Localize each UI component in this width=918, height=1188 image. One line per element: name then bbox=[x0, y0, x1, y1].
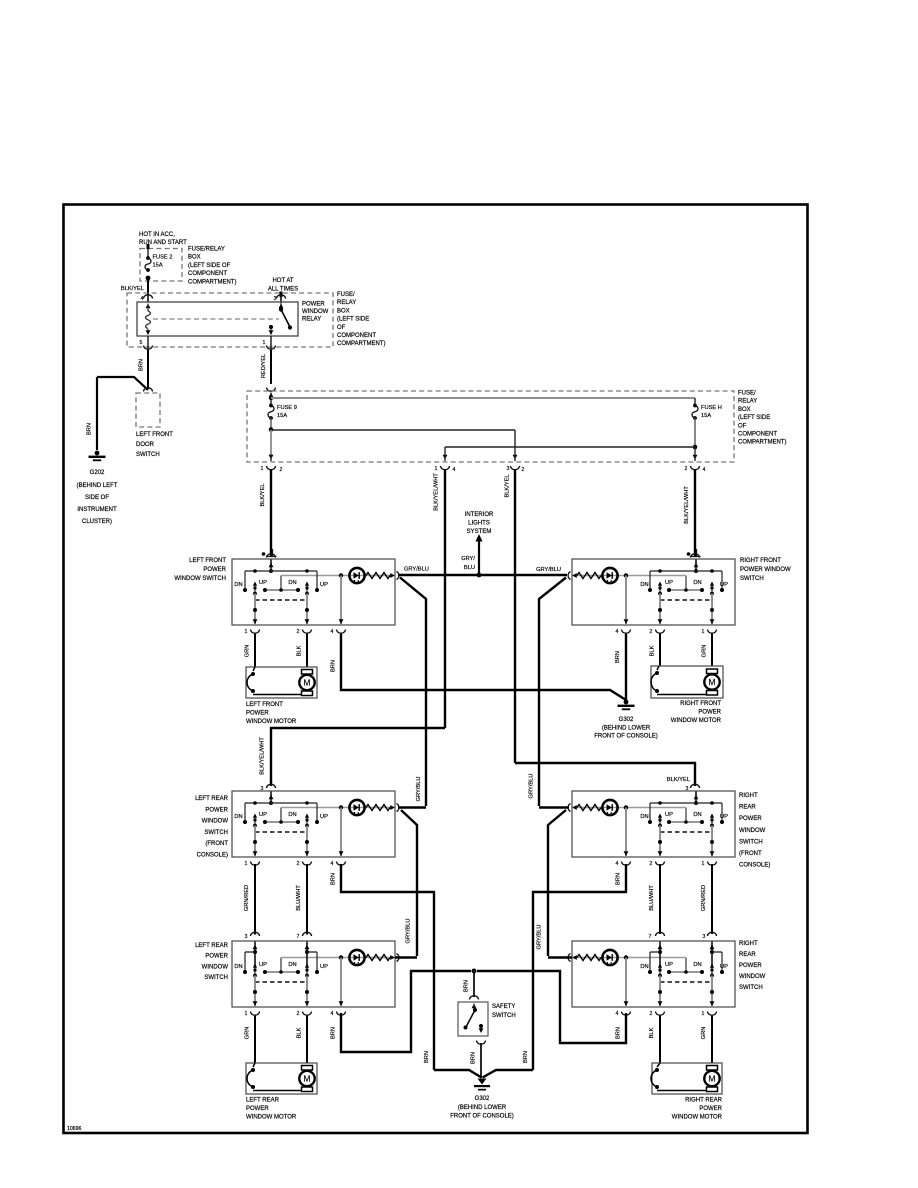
label G302 (BEHIND LOWER FRONT OF CONSOLE) front bbox=[594, 717, 658, 740]
fusebox pin 3/2 bbox=[507, 466, 525, 473]
svg-text:15A: 15A bbox=[153, 263, 163, 269]
svg-text:RIGHT: RIGHT bbox=[739, 793, 758, 799]
svg-text:GRN: GRN bbox=[702, 645, 708, 658]
svg-text:1: 1 bbox=[702, 1011, 705, 1017]
right rear power window switch (front console) illumination LED and resistor bbox=[568, 800, 686, 822]
left front power window switch feed bus from pin bbox=[245, 560, 317, 591]
right front power window switch DN/UP contact row bbox=[648, 588, 724, 592]
fuse/relay box 3 (dashed) bbox=[247, 391, 734, 462]
svg-text:5: 5 bbox=[140, 340, 143, 346]
wire BLK right rear bbox=[649, 1016, 660, 1063]
left rear power window switch (front console) illumination LED and resistor bbox=[281, 800, 399, 822]
wire BRN relay pin5 down bbox=[139, 350, 149, 389]
left front power window switch wiper w2 bbox=[305, 582, 309, 596]
svg-text:SWITCH: SWITCH bbox=[204, 830, 228, 836]
svg-text:SWITCH: SWITCH bbox=[739, 985, 763, 991]
left front power window switch DN UP labels bbox=[234, 580, 328, 588]
fusebox pin 1/4 bbox=[435, 466, 456, 473]
svg-text:4: 4 bbox=[331, 1011, 334, 1017]
svg-text:FUSE/: FUSE/ bbox=[738, 391, 756, 397]
svg-text:1: 1 bbox=[435, 466, 438, 472]
svg-text:RELAY: RELAY bbox=[302, 317, 321, 323]
svg-text:4: 4 bbox=[141, 296, 144, 302]
svg-text:UP: UP bbox=[259, 580, 267, 586]
svg-text:GRN: GRN bbox=[245, 1027, 251, 1040]
page border frame bbox=[64, 205, 808, 1134]
svg-text:4: 4 bbox=[616, 629, 619, 635]
safety switch bottom pin bbox=[477, 1041, 486, 1045]
left front power window switch wiper w1 bbox=[253, 582, 257, 596]
svg-text:2: 2 bbox=[685, 466, 688, 472]
svg-text:1: 1 bbox=[245, 861, 248, 867]
wire GRY/BLU right lower drop bbox=[537, 810, 567, 956]
label G202 (BEHIND LEFT SIDE OF INSTRUMENT CLUSTER) bbox=[76, 470, 117, 525]
right front power window switch DN UP labels bbox=[640, 580, 728, 588]
svg-text:4: 4 bbox=[331, 629, 334, 635]
svg-text:BLU/WHT: BLU/WHT bbox=[649, 885, 655, 911]
wire BRN left console to ground run bbox=[331, 864, 435, 1070]
svg-text:POWER: POWER bbox=[203, 567, 226, 573]
right rear motor contact arc bbox=[651, 1063, 712, 1091]
svg-text:BRN: BRN bbox=[139, 359, 145, 371]
svg-text:DN: DN bbox=[234, 814, 242, 820]
wire GRY/BLU into right lower switch bbox=[548, 956, 572, 958]
wire BLK left rear bbox=[297, 1016, 308, 1063]
wire BRN branch to ground bbox=[87, 377, 149, 450]
left rear power window switch (front console) bottom pins 1 2 4 bbox=[245, 861, 346, 867]
svg-text:3: 3 bbox=[507, 466, 510, 472]
svg-text:4: 4 bbox=[703, 467, 706, 473]
svg-text:WINDOW MOTOR: WINDOW MOTOR bbox=[246, 1115, 297, 1121]
left rear power window switch illumination LED and resistor bbox=[281, 950, 399, 972]
svg-text:1: 1 bbox=[702, 629, 705, 635]
right rear power window switch (front console) bottom pins 1 2 4 bbox=[616, 861, 717, 867]
svg-text:POWER: POWER bbox=[205, 954, 228, 960]
svg-text:1: 1 bbox=[261, 466, 264, 472]
wire BLU/WHT right bbox=[649, 864, 660, 934]
svg-text:BLK/YEL: BLK/YEL bbox=[121, 286, 144, 292]
svg-text:BRN: BRN bbox=[616, 1027, 622, 1039]
svg-text:G202: G202 bbox=[90, 470, 105, 476]
safety switch contacts bbox=[464, 1004, 484, 1034]
svg-text:(LEFT SIDE: (LEFT SIDE bbox=[337, 317, 369, 323]
svg-text:SWITCH: SWITCH bbox=[740, 576, 764, 582]
wire BLK/YEL fusebox pin3 down bbox=[505, 469, 516, 763]
right rear console switch pin 3 bbox=[686, 784, 700, 792]
svg-text:BLK/YEL/WHT: BLK/YEL/WHT bbox=[434, 473, 440, 511]
left front motor contact arc bbox=[247, 667, 307, 695]
svg-text:OF: OF bbox=[738, 423, 747, 429]
svg-text:15A: 15A bbox=[277, 413, 287, 419]
svg-text:(FRONT: (FRONT bbox=[205, 841, 228, 847]
svg-text:FUSE 2: FUSE 2 bbox=[153, 255, 173, 261]
wire BRN right funnel bbox=[483, 1051, 534, 1078]
svg-text:FRONT OF CONSOLE): FRONT OF CONSOLE) bbox=[450, 1113, 514, 1119]
svg-text:(LEFT SIDE OF: (LEFT SIDE OF bbox=[188, 263, 231, 269]
svg-text:BLU/WHT: BLU/WHT bbox=[296, 885, 302, 911]
svg-text:1: 1 bbox=[263, 340, 266, 346]
svg-text:UP: UP bbox=[665, 580, 673, 586]
svg-text:LEFT FRONT: LEFT FRONT bbox=[246, 702, 283, 708]
left rear power window switch (front console) DN/UP contact row bbox=[243, 820, 319, 824]
left front power window switch mechanical link bbox=[255, 599, 307, 601]
left front power window switch output wires to pins bbox=[253, 576, 344, 626]
wire BLK/YEL fuse2 to relay pin4 bbox=[121, 278, 148, 295]
wire BLK left front bbox=[297, 634, 308, 667]
left rear power window switch (front console) DN UP labels bbox=[234, 812, 328, 820]
left rear power window switch DN/UP contact row bbox=[243, 970, 319, 974]
svg-text:BLU: BLU bbox=[464, 565, 475, 571]
wire fuseH to pin2 down bbox=[693, 447, 698, 461]
svg-text:BRN: BRN bbox=[523, 1051, 529, 1063]
wire BLU/WHT left bbox=[296, 864, 307, 935]
right front power window switch body bbox=[572, 559, 735, 625]
left front motor M1 bbox=[299, 670, 314, 696]
svg-text:2: 2 bbox=[522, 467, 525, 473]
wire fuse9 to pin3 run bbox=[271, 430, 517, 461]
fuse FH bbox=[692, 404, 722, 420]
right rear power window switch DN UP labels bbox=[640, 962, 728, 970]
svg-text:BLK: BLK bbox=[650, 645, 656, 656]
svg-text:BLK/YEL/WHT: BLK/YEL/WHT bbox=[260, 737, 266, 775]
svg-text:(BEHIND LOWER: (BEHIND LOWER bbox=[602, 725, 651, 731]
svg-text:WINDOW MOTOR: WINDOW MOTOR bbox=[672, 1115, 723, 1121]
svg-text:COMPONENT: COMPONENT bbox=[188, 271, 227, 277]
wire BRN left funnel bbox=[424, 1051, 482, 1078]
safety switch body bbox=[458, 1002, 488, 1036]
right rear motor M4 bbox=[704, 1066, 719, 1092]
svg-text:7: 7 bbox=[649, 934, 652, 940]
left rear power window switch output wires to pins bbox=[253, 958, 344, 1008]
wire fuseH to pin1 run bbox=[443, 447, 695, 461]
wire stub hot-in-acc bbox=[147, 244, 150, 249]
right rear power window switch wiper w2 bbox=[658, 964, 662, 978]
svg-text:4: 4 bbox=[616, 861, 619, 867]
right front power window motor body bbox=[651, 666, 723, 698]
svg-text:(FRONT: (FRONT bbox=[739, 851, 762, 857]
svg-text:LEFT FRONT: LEFT FRONT bbox=[189, 558, 226, 564]
svg-text:SWITCH: SWITCH bbox=[136, 452, 160, 458]
label HOT AT ALL TIMES bbox=[268, 278, 298, 293]
wire fuse9 to pin1 down bbox=[269, 430, 274, 461]
svg-text:(LEFT SIDE: (LEFT SIDE bbox=[738, 415, 770, 421]
svg-text:BRN: BRN bbox=[616, 873, 622, 885]
wire GRY/BLU into right console switch bbox=[539, 806, 569, 808]
svg-text:UP: UP bbox=[320, 582, 328, 588]
svg-text:BRN: BRN bbox=[424, 1051, 430, 1063]
label SAFETY SWITCH bbox=[492, 1004, 516, 1019]
svg-text:BLK: BLK bbox=[649, 1027, 655, 1038]
svg-text:M: M bbox=[708, 1074, 715, 1084]
svg-text:POWER WINDOW: POWER WINDOW bbox=[740, 567, 791, 573]
svg-text:GRY/BLU: GRY/BLU bbox=[406, 919, 412, 944]
svg-text:HOT AT: HOT AT bbox=[272, 278, 293, 284]
svg-text:GRY/BLU: GRY/BLU bbox=[416, 777, 422, 802]
wire BLK/YEL/WHT junction to left rear console switch bbox=[260, 728, 446, 786]
left rear power window switch (front console) feed bus from pin bbox=[245, 792, 317, 823]
left front switch inline connector bbox=[262, 549, 277, 558]
svg-text:LEFT REAR: LEFT REAR bbox=[246, 1098, 280, 1104]
svg-text:CLUSTER): CLUSTER) bbox=[82, 519, 112, 525]
left front door switch connector bbox=[144, 388, 153, 392]
wire BRN right lower switch bbox=[477, 971, 626, 1043]
right front switch inline connector bbox=[687, 549, 701, 558]
label RIGHT REAR POWER WINDOW SWITCH bbox=[739, 941, 766, 991]
svg-text:BOX: BOX bbox=[337, 308, 350, 314]
left front power window switch illumination LED and resistor bbox=[281, 568, 399, 590]
left rear power window switch wiper w1 bbox=[253, 964, 257, 978]
svg-text:INSTRUMENT: INSTRUMENT bbox=[77, 507, 117, 513]
svg-text:2: 2 bbox=[280, 467, 283, 473]
ground G302 rear bbox=[474, 1079, 490, 1091]
wire GRN left rear bbox=[245, 1016, 256, 1063]
right rear power window switch mechanical link bbox=[660, 981, 712, 983]
svg-text:COMPARTMENT): COMPARTMENT) bbox=[738, 440, 786, 446]
svg-text:4: 4 bbox=[616, 1011, 619, 1017]
left rear console switch pin 3 bbox=[261, 784, 276, 792]
svg-text:GRN: GRN bbox=[701, 1027, 707, 1040]
svg-text:15A: 15A bbox=[701, 413, 711, 419]
label HOT IN ACC RUN AND START bbox=[139, 232, 187, 246]
wire BLK right front bbox=[650, 634, 661, 666]
wire GRN right rear bbox=[701, 1016, 712, 1063]
label LEFT REAR POWER WINDOW SWITCH (FRONT CONSOLE) bbox=[195, 796, 229, 859]
svg-text:CONSOLE): CONSOLE) bbox=[197, 853, 228, 859]
svg-text:1: 1 bbox=[702, 861, 705, 867]
svg-text:POWER: POWER bbox=[205, 807, 228, 813]
svg-text:FUSE 9: FUSE 9 bbox=[277, 405, 297, 411]
svg-text:GRN/RED: GRN/RED bbox=[244, 885, 250, 911]
left rear power window motor body bbox=[246, 1063, 317, 1094]
label FUSE/RELAY BOX right of fusebox bbox=[738, 391, 786, 446]
wire GRY/BLU into left lower switch bbox=[395, 956, 417, 958]
right rear switch pins 7 and 3 bbox=[649, 932, 717, 940]
right rear power window switch bottom pins 1 2 4 bbox=[616, 1011, 717, 1017]
svg-text:7: 7 bbox=[297, 934, 300, 940]
wire BLK/YEL to left front switch bbox=[260, 469, 271, 556]
right front power window switch bottom pins 1 2 4 bbox=[616, 629, 717, 635]
left rear motor contact arc bbox=[247, 1063, 307, 1091]
svg-text:DN: DN bbox=[640, 814, 648, 820]
right rear power window switch wiper w1 bbox=[710, 964, 714, 978]
relay pin 3 bbox=[274, 295, 286, 302]
left rear power window switch (front console) body bbox=[232, 791, 395, 857]
svg-text:2: 2 bbox=[297, 861, 300, 867]
svg-text:LEFT REAR: LEFT REAR bbox=[195, 943, 229, 949]
wire GRY/BLU to interior lights bbox=[461, 534, 482, 575]
svg-text:BRN: BRN bbox=[464, 980, 470, 992]
svg-text:WINDOW: WINDOW bbox=[202, 964, 229, 970]
right front motor M2 bbox=[704, 669, 719, 695]
svg-text:POWER: POWER bbox=[698, 710, 721, 716]
svg-text:POWER: POWER bbox=[302, 302, 325, 308]
svg-text:ALL TIMES: ALL TIMES bbox=[268, 287, 298, 293]
fuse F9 output node bbox=[269, 418, 274, 432]
svg-text:DN: DN bbox=[693, 962, 701, 968]
svg-text:OF: OF bbox=[337, 325, 346, 331]
svg-text:BLK/YEL/WHT: BLK/YEL/WHT bbox=[684, 486, 690, 524]
ground G202 bbox=[89, 451, 106, 462]
right rear power window switch (front console) wiper w2 bbox=[658, 814, 662, 828]
right rear power window switch (front console) output wires to pins bbox=[624, 808, 715, 858]
svg-text:GRY/BLU: GRY/BLU bbox=[536, 567, 561, 573]
right rear power window switch DN/UP contact row bbox=[648, 970, 724, 974]
svg-text:GRY/BLU: GRY/BLU bbox=[404, 567, 429, 573]
fuse FH feed bbox=[694, 398, 696, 406]
svg-text:2: 2 bbox=[297, 1011, 300, 1017]
relay pin 5 bbox=[140, 336, 153, 350]
left front power window switch bottom pins 1 2 4 bbox=[245, 629, 346, 635]
svg-text:COMPONENT: COMPONENT bbox=[738, 432, 777, 438]
label LEFT FRONT DOOR SWITCH bbox=[136, 432, 173, 458]
svg-text:UP: UP bbox=[665, 812, 673, 818]
wire BLK/YEL/WHT to right front switch bbox=[684, 469, 695, 556]
svg-text:REAR: REAR bbox=[739, 805, 756, 811]
left rear power window switch feed branches from pins bbox=[245, 942, 317, 973]
wire BRN right console to ground run bbox=[533, 864, 626, 1070]
wire GRY/BLU left lower drop bbox=[401, 810, 417, 956]
svg-text:3: 3 bbox=[703, 934, 706, 940]
svg-text:3: 3 bbox=[274, 296, 277, 302]
wire GRY/BLU main run bbox=[398, 567, 567, 578]
svg-text:POWER: POWER bbox=[699, 1106, 722, 1112]
right rear power window motor body bbox=[652, 1063, 722, 1094]
svg-text:RIGHT FRONT: RIGHT FRONT bbox=[740, 558, 781, 564]
relay pin 1 bbox=[263, 336, 276, 350]
svg-text:UP: UP bbox=[720, 582, 728, 588]
label LEFT REAR POWER WINDOW MOTOR bbox=[246, 1098, 297, 1121]
fuse/relay box 2 outer (dashed) bbox=[127, 293, 333, 347]
wire GRY/BLU right drop bbox=[529, 578, 567, 807]
svg-text:3: 3 bbox=[245, 934, 248, 940]
label RIGHT FRONT POWER WINDOW MOTOR bbox=[671, 701, 722, 724]
wire stub hot-at-all-times bbox=[280, 292, 283, 298]
svg-text:DN: DN bbox=[288, 580, 296, 586]
svg-text:BRN: BRN bbox=[331, 1027, 337, 1039]
svg-text:BLK/YEL: BLK/YEL bbox=[260, 483, 266, 506]
svg-text:WINDOW: WINDOW bbox=[302, 309, 329, 315]
svg-text:HOT IN ACC,: HOT IN ACC, bbox=[139, 232, 175, 238]
wire GRY/BLU left drop bbox=[400, 578, 426, 807]
svg-text:2: 2 bbox=[297, 629, 300, 635]
right rear power window switch output wires to pins bbox=[624, 958, 715, 1008]
svg-text:2: 2 bbox=[650, 629, 653, 635]
svg-text:WINDOW: WINDOW bbox=[739, 974, 766, 980]
svg-text:DN: DN bbox=[640, 964, 648, 970]
left front power window switch DN/UP contact row bbox=[243, 588, 319, 592]
svg-text:RIGHT REAR: RIGHT REAR bbox=[685, 1098, 723, 1104]
svg-text:DN: DN bbox=[693, 580, 701, 586]
svg-text:DN: DN bbox=[234, 582, 242, 588]
svg-text:POWER: POWER bbox=[739, 963, 762, 969]
left rear power window switch body bbox=[232, 941, 395, 1007]
svg-text:G302: G302 bbox=[619, 717, 634, 723]
svg-text:BRN: BRN bbox=[331, 873, 337, 885]
wire BRN left front to G302 bbox=[331, 634, 627, 700]
left rear switch pins 3 and 7 bbox=[245, 932, 312, 940]
svg-text:1: 1 bbox=[245, 1011, 248, 1017]
svg-text:2: 2 bbox=[650, 861, 653, 867]
wire BRN right front to G302 bbox=[615, 634, 626, 700]
svg-text:BLK: BLK bbox=[297, 1027, 303, 1038]
svg-text:BLK: BLK bbox=[297, 645, 303, 656]
svg-text:2: 2 bbox=[650, 1011, 653, 1017]
right front power window switch illumination LED and resistor bbox=[568, 568, 686, 590]
label FUSE/RELAY BOX (LEFT SIDE OF COMPONENT COMPARTMENT) bbox=[188, 247, 236, 286]
wire BRN left lower switch bbox=[331, 971, 472, 1052]
fuse/relay box 1 (dashed) bbox=[140, 249, 182, 282]
svg-text:INTERIOR: INTERIOR bbox=[465, 512, 494, 518]
svg-text:SWITCH: SWITCH bbox=[492, 1013, 516, 1019]
left rear power window switch bottom pins 1 2 4 bbox=[245, 1011, 346, 1017]
left rear power window switch (front console) mechanical link bbox=[255, 831, 307, 833]
relay switch contacts bbox=[269, 302, 293, 335]
svg-text:UP: UP bbox=[720, 814, 728, 820]
svg-text:BOX: BOX bbox=[188, 255, 201, 261]
wire RED/YEL relay pin1 to fusebox bbox=[261, 350, 271, 384]
svg-text:RIGHT FRONT: RIGHT FRONT bbox=[680, 701, 721, 707]
svg-text:(BEHIND LOWER: (BEHIND LOWER bbox=[458, 1105, 507, 1111]
svg-text:RELAY: RELAY bbox=[738, 399, 757, 405]
svg-text:GRY/: GRY/ bbox=[461, 556, 475, 562]
relay internal link (dashed) bbox=[153, 318, 279, 320]
svg-text:RELAY: RELAY bbox=[337, 300, 356, 306]
label LEFT FRONT POWER WINDOW MOTOR bbox=[246, 702, 297, 725]
left rear power window switch (front console) output wires to pins bbox=[253, 808, 344, 858]
relay coil bbox=[146, 304, 151, 336]
svg-text:LIGHTS: LIGHTS bbox=[468, 521, 490, 527]
svg-text:UP: UP bbox=[320, 814, 328, 820]
right front power window switch wiper w1 bbox=[710, 582, 714, 596]
svg-text:POWER: POWER bbox=[739, 816, 762, 822]
left rear power window switch (front console) wiper w2 bbox=[305, 814, 309, 828]
fusebox pin 2/4 right bbox=[685, 466, 706, 473]
left front door switch body bbox=[136, 393, 160, 427]
svg-text:SWITCH: SWITCH bbox=[204, 975, 228, 981]
right front motor contact arc bbox=[651, 666, 712, 695]
svg-text:FUSE/RELAY: FUSE/RELAY bbox=[188, 247, 225, 253]
svg-text:BRN: BRN bbox=[615, 651, 621, 663]
svg-text:UP: UP bbox=[259, 812, 267, 818]
svg-text:COMPARTMENT): COMPARTMENT) bbox=[188, 279, 236, 285]
wire GRN/RED left bbox=[244, 864, 255, 935]
svg-text:SIDE OF: SIDE OF bbox=[85, 495, 109, 501]
ground G302 front bbox=[618, 700, 635, 711]
svg-text:CONSOLE): CONSOLE) bbox=[739, 863, 770, 869]
svg-text:FRONT OF CONSOLE): FRONT OF CONSOLE) bbox=[594, 734, 658, 740]
svg-text:UP: UP bbox=[720, 964, 728, 970]
svg-text:COMPARTMENT): COMPARTMENT) bbox=[337, 341, 385, 347]
svg-text:COMPONENT: COMPONENT bbox=[337, 333, 376, 339]
right rear power window switch (front console) feed bus from pin bbox=[650, 792, 722, 823]
left front power window motor body bbox=[246, 667, 317, 698]
right front power window switch wiper w2 bbox=[658, 582, 662, 596]
right rear power window switch (front console) DN/UP contact row bbox=[648, 820, 724, 824]
svg-text:GRN/RED: GRN/RED bbox=[701, 885, 707, 911]
svg-text:UP: UP bbox=[665, 962, 673, 968]
svg-text:BRN: BRN bbox=[87, 423, 93, 435]
svg-text:GRY/BLU: GRY/BLU bbox=[529, 774, 535, 799]
wire BRN safety switch to ground bbox=[471, 1043, 482, 1078]
safety switch connector bbox=[470, 996, 479, 1000]
left rear power window switch (front console) wiper w1 bbox=[253, 814, 257, 828]
svg-text:FUSE/: FUSE/ bbox=[337, 292, 355, 298]
svg-text:BOX: BOX bbox=[738, 407, 751, 413]
svg-text:DN: DN bbox=[288, 962, 296, 968]
svg-text:RUN AND START: RUN AND START bbox=[139, 240, 187, 246]
wire GRY/BLU into left console switch bbox=[398, 806, 426, 808]
junction BRN safety node bbox=[472, 969, 477, 974]
